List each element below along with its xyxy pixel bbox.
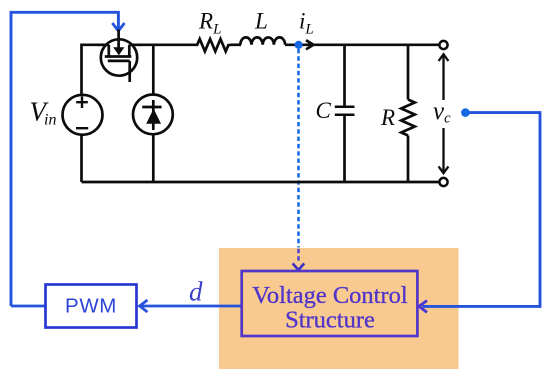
MOSFET internal: right lead and post	[129, 45, 141, 57]
wire: dashed iL measurement line	[297, 49, 300, 248]
MOSFET gate stub lead	[128, 61, 131, 82]
inductor L	[240, 37, 285, 44]
MOSFET internal: left lead and post	[97, 45, 109, 57]
transistor Q1 (MOSFET switch) body circle	[101, 39, 137, 75]
plus sign in Vin	[76, 96, 88, 108]
vc arrow lower segment	[442, 128, 444, 173]
wire: resistor R bottom lead	[407, 136, 410, 183]
block PWM	[46, 285, 137, 328]
svg-text:R: R	[380, 105, 395, 130]
node vc (sense junction dot)	[461, 108, 470, 117]
svg-text:C: C	[316, 98, 332, 123]
wire: PWM input from left loop	[11, 305, 45, 308]
node iL (junction dot)	[295, 41, 303, 49]
svg-text:d: d	[189, 277, 203, 307]
wire: diode column top	[152, 45, 155, 95]
diode D1 cathode bar	[142, 106, 161, 109]
diode D1 anode triangle	[146, 109, 161, 124]
wire: between RL and L	[231, 43, 242, 46]
wire: d signal VCS to PWM	[140, 305, 242, 308]
capacitor C plates	[335, 106, 355, 109]
wire: capacitor C bottom lead	[343, 116, 346, 183]
wire: diode column bottom	[152, 133, 155, 182]
wire: bottom rail	[82, 181, 439, 184]
arrowhead: filled, pointing down to channel	[113, 47, 124, 55]
wire: blue gate-drive loop from PWM up over to MOSFET gate	[11, 12, 118, 306]
arrowhead: blue into MOSFET gate	[112, 23, 124, 31]
terminal: output top	[439, 41, 447, 49]
wire: resistor R top lead	[407, 45, 410, 100]
arrowhead: into Voltage Control Structure box right side	[419, 301, 427, 313]
wire: Vin bottom lead	[80, 135, 83, 183]
svg-text:vc: vc	[433, 98, 451, 127]
resistor RL	[196, 39, 231, 51]
arrowhead: vc down	[439, 166, 449, 173]
wire: top rail MOSFET to resistor RL	[138, 43, 196, 46]
MOSFET gate vertical shaft with arrow	[117, 30, 120, 49]
svg-text:Structure: Structure	[285, 307, 375, 334]
arrowhead: into PWM box	[140, 300, 148, 312]
diode D1 body circle	[133, 95, 173, 135]
wire: dashed segment over orange panel	[297, 249, 300, 262]
vc arrow upper segment	[442, 55, 444, 101]
svg-text:iL: iL	[299, 9, 314, 38]
block Voltage Control Structure	[242, 271, 418, 336]
MOSFET internal: gate bar	[108, 60, 130, 63]
wire: vc feedback right side	[423, 113, 541, 307]
diode D1 internal lead	[152, 100, 155, 130]
wire: top rail left segment	[82, 45, 100, 95]
svg-text:RL: RL	[198, 9, 221, 38]
arrowhead: dashed line into VCS box top	[293, 263, 305, 270]
svg-text:PWM: PWM	[65, 295, 117, 318]
arrowhead: vc up	[439, 54, 449, 61]
svg-text:Voltage Control: Voltage Control	[252, 282, 408, 309]
wire: capacitor C top lead	[343, 45, 346, 106]
background panel (orange)	[219, 248, 459, 369]
svg-text:Vin: Vin	[30, 97, 57, 129]
voltage source Vin	[63, 95, 103, 135]
resistor R	[401, 100, 415, 136]
terminal: output bottom	[439, 178, 447, 186]
arrowhead: iL direction on rail	[306, 40, 313, 49]
minus sign in Vin	[76, 127, 88, 129]
wire: top rail L to right terminal	[285, 43, 439, 46]
svg-text:L: L	[254, 9, 268, 34]
MOSFET internal: channel bar	[105, 55, 132, 58]
